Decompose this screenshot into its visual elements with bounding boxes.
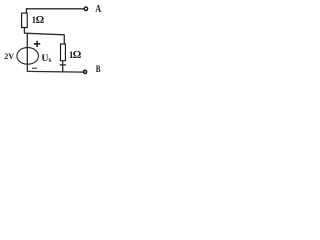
svg-text:Us: Us <box>41 53 51 64</box>
svg-text:B: B <box>96 64 101 74</box>
terminal A <box>84 7 87 10</box>
wire middle horizontal <box>24 33 64 35</box>
wire top-left corner down to R1 <box>25 8 27 13</box>
tick mark below R2 body <box>60 64 66 66</box>
wire bottom from source to terminal B <box>27 70 83 73</box>
svg-text:2V: 2V <box>4 52 14 61</box>
wire top from R1 top corner to terminal A <box>26 8 84 10</box>
svg-text:Ω: Ω <box>73 49 81 61</box>
terminal B <box>83 70 86 73</box>
source polarity plus <box>34 41 40 47</box>
wire left vertical through source <box>26 33 28 71</box>
svg-text:Ω: Ω <box>36 15 44 26</box>
resistor R1 1ohm body <box>22 13 28 27</box>
wire R1 bottom to middle node <box>23 27 25 33</box>
voltage source Us circle <box>17 48 39 65</box>
resistor R2 1ohm body <box>61 44 66 61</box>
svg-text:A: A <box>95 4 101 15</box>
source polarity minus <box>32 67 37 69</box>
wire R2 bottom to bottom wire <box>62 61 64 73</box>
wire middle corner down to R2 <box>63 35 65 45</box>
